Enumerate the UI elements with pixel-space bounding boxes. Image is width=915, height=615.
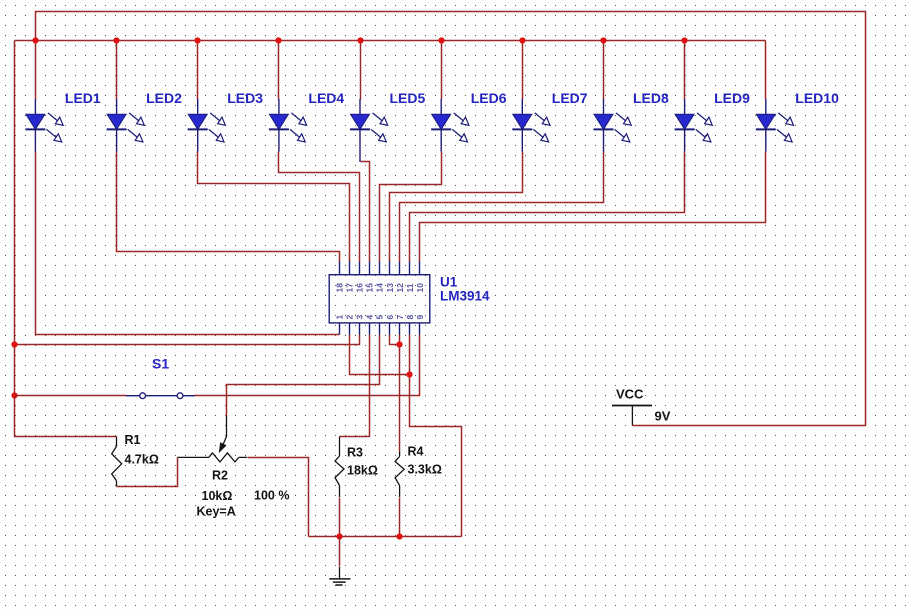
svg-text:LED8: LED8 [633,90,669,106]
wire IC pin 4 down to R3 [340,335,370,437]
svg-text:LED10: LED10 [795,90,839,106]
wire LED1 cathode down to IC pin 1 [36,152,340,335]
pin stub top pin 17 [349,262,351,275]
junction dot left rail to pin 3 [11,341,17,347]
svg-text:LED9: LED9 [714,90,750,106]
wire IC pin 8 net down to ground rail [410,335,462,537]
wire LED5 navy lead extension [359,152,361,162]
wire LED3 anode from bus [197,41,199,100]
svg-text:9: 9 [415,315,425,320]
wire LED anode bus (second top rail) from left rail to LED10 column [15,40,766,42]
LED diode LED8 [594,99,632,152]
LED diode LED4 [269,99,307,152]
resistor R4 3.3k vertical [395,451,404,497]
svg-text:8: 8 [405,315,415,320]
wire VCC to right rail [633,425,866,427]
svg-text:LED2: LED2 [146,90,182,106]
wire LED7 anode from bus [522,41,524,100]
svg-text:14: 14 [375,283,385,293]
svg-text:Key=A: Key=A [197,505,236,519]
svg-text:U1: U1 [440,275,458,290]
pin stub top pin 11 [409,262,411,275]
wire LED5 cathode jog to IC pin 15 [361,162,370,262]
pin stub bottom pin 5 [379,323,381,335]
LED diode LED2 [107,99,145,152]
svg-text:1: 1 [335,315,345,320]
svg-text:R4: R4 [408,445,424,459]
svg-text:15: 15 [365,283,375,293]
wire IC pin 9 mode select to switch S1 [195,335,420,396]
svg-text:12: 12 [395,283,405,293]
power symbol VCC [612,406,652,426]
junction dot LED8 anode on bus [600,37,606,43]
svg-text:4.7kΩ: 4.7kΩ [125,453,159,467]
pin stub bottom pin 7 [399,323,401,335]
svg-text:3: 3 [355,315,365,320]
wire LED6 cathode to IC pin 14 [380,152,442,262]
LED diode LED7 [512,99,550,152]
svg-text:4: 4 [365,315,375,320]
junction dot LED4 anode on bus [275,37,281,43]
wire LED10 anode from bus [765,41,767,100]
svg-text:3.3kΩ: 3.3kΩ [408,463,442,477]
wire IC pin 2 down and right to pin 8 ground net [350,335,410,375]
svg-text:9V: 9V [655,409,671,424]
wire LED9 cathode to IC pin 11 [410,152,685,262]
pin stub bottom pin 8 [409,323,411,335]
svg-text:18kΩ: 18kΩ [347,464,378,478]
svg-text:R1: R1 [125,433,141,447]
pin stub bottom pin 1 [339,323,341,335]
wire R4 bottom to ground rail [399,498,401,537]
svg-text:R3: R3 [347,446,363,460]
svg-text:LED1: LED1 [65,90,101,106]
svg-text:13: 13 [385,283,395,293]
LED diode LED9 [675,99,713,152]
wire LED6 anode from bus [441,41,443,100]
junction dot LED2 anode on bus [113,37,119,43]
junction dot LED7 anode on bus [519,37,525,43]
wire IC pin 3 V+ to left rail [15,335,360,345]
wire VCC top rail from LED1 column to right rail and down to VCC source [36,12,866,426]
LED diode LED6 [431,99,469,152]
LED diode LED3 [188,99,226,152]
junction dot pins 6-7 and R4 [396,341,402,347]
wire IC pin 6 link to pin 7 [390,335,400,345]
wire IC pin 7 down to R4 [399,335,401,452]
wire LED4 cathode to IC pin 16 [279,152,360,262]
pin stub top pin 15 [369,262,371,275]
pin stub bottom pin 4 [369,323,371,335]
junction dot R3 on ground rail [336,533,342,539]
svg-text:R2: R2 [212,469,228,483]
svg-text:S1: S1 [152,356,169,372]
pin stub top pin 14 [379,262,381,275]
svg-text:LED5: LED5 [390,90,426,106]
pin stub bottom pin 9 [419,323,421,335]
op-amp/IC U1 LM3914 body [329,275,430,323]
junction dot LED9 anode on bus [681,37,687,43]
junction dot LED1 anode on bus [32,37,38,43]
junction dot pin 8 ground net [406,371,412,377]
svg-text:LM3914: LM3914 [440,289,490,304]
pin stub bottom pin 2 [349,323,351,335]
resistor R1 4.7k vertical [112,437,122,487]
svg-text:17: 17 [345,283,355,293]
pin stub bottom pin 3 [359,323,361,335]
wire R3 bottom to ground rail [339,498,341,537]
wire IC pin 5 signal to potentiometer wiper [227,335,380,417]
pin stub top pin 16 [359,262,361,275]
wire LED7 cathode to IC pin 13 [390,152,523,262]
svg-text:VCC: VCC [616,387,644,402]
svg-text:10: 10 [415,283,425,293]
svg-text:11: 11 [405,283,415,292]
svg-text:10kΩ: 10kΩ [202,489,233,503]
wire LED8 anode from bus [603,41,605,100]
wire LED4 anode from bus [278,41,280,100]
wire LED1 anode from bus [35,41,37,100]
svg-text:LED3: LED3 [227,90,263,106]
LED diode LED10 [756,99,794,152]
pin stub top pin 18 [339,262,341,275]
svg-text:5: 5 [375,315,385,320]
wire left rail to switch left lead [15,395,127,397]
svg-text:16: 16 [355,283,365,293]
pin stub top pin 10 [419,262,421,275]
pin stub bottom pin 6 [389,323,391,335]
svg-text:18: 18 [335,283,345,293]
svg-text:LED4: LED4 [308,90,344,106]
svg-text:6: 6 [385,315,395,320]
pin stub top pin 12 [399,262,401,275]
wire LED9 anode from bus [684,41,686,100]
wire LED3 cathode to IC pin 17 [198,152,350,262]
svg-text:2: 2 [345,315,355,320]
junction dot LED6 anode on bus [438,37,444,43]
svg-text:LED6: LED6 [471,90,507,106]
svg-text:7: 7 [395,315,405,320]
svg-text:100 %: 100 % [254,489,289,503]
junction dot R4 on ground rail [396,533,402,539]
junction dot LED3 anode on bus [194,37,200,43]
svg-text:LED7: LED7 [552,90,588,106]
LED diode LED5 [350,99,388,152]
LED diode LED1 [25,99,63,152]
pin stub top pin 13 [389,262,391,275]
ground symbol [329,567,350,585]
wire LED2 anode from bus [116,41,118,100]
wire LED8 cathode to IC pin 12 [400,152,604,262]
junction dot LED5 anode on bus [357,37,363,43]
switch S1 [126,393,195,399]
wire left VCC rail down to R1 top [15,41,117,437]
junction dot left rail to switch [11,392,17,398]
wire LED10 cathode to IC pin 10 [420,152,766,262]
wire bottom ground rail [309,536,462,538]
wire R1 bottom to R2 left lead [117,458,178,487]
wire ground stem [339,537,341,567]
wire LED5 anode from bus [360,41,362,100]
resistor R3 18k vertical [335,437,344,498]
potentiometer R2 10k horizontal [177,416,247,462]
wire LED2 cathode to IC pin 18 [117,152,340,262]
wire R2 right lead down to ground rail [248,458,309,537]
